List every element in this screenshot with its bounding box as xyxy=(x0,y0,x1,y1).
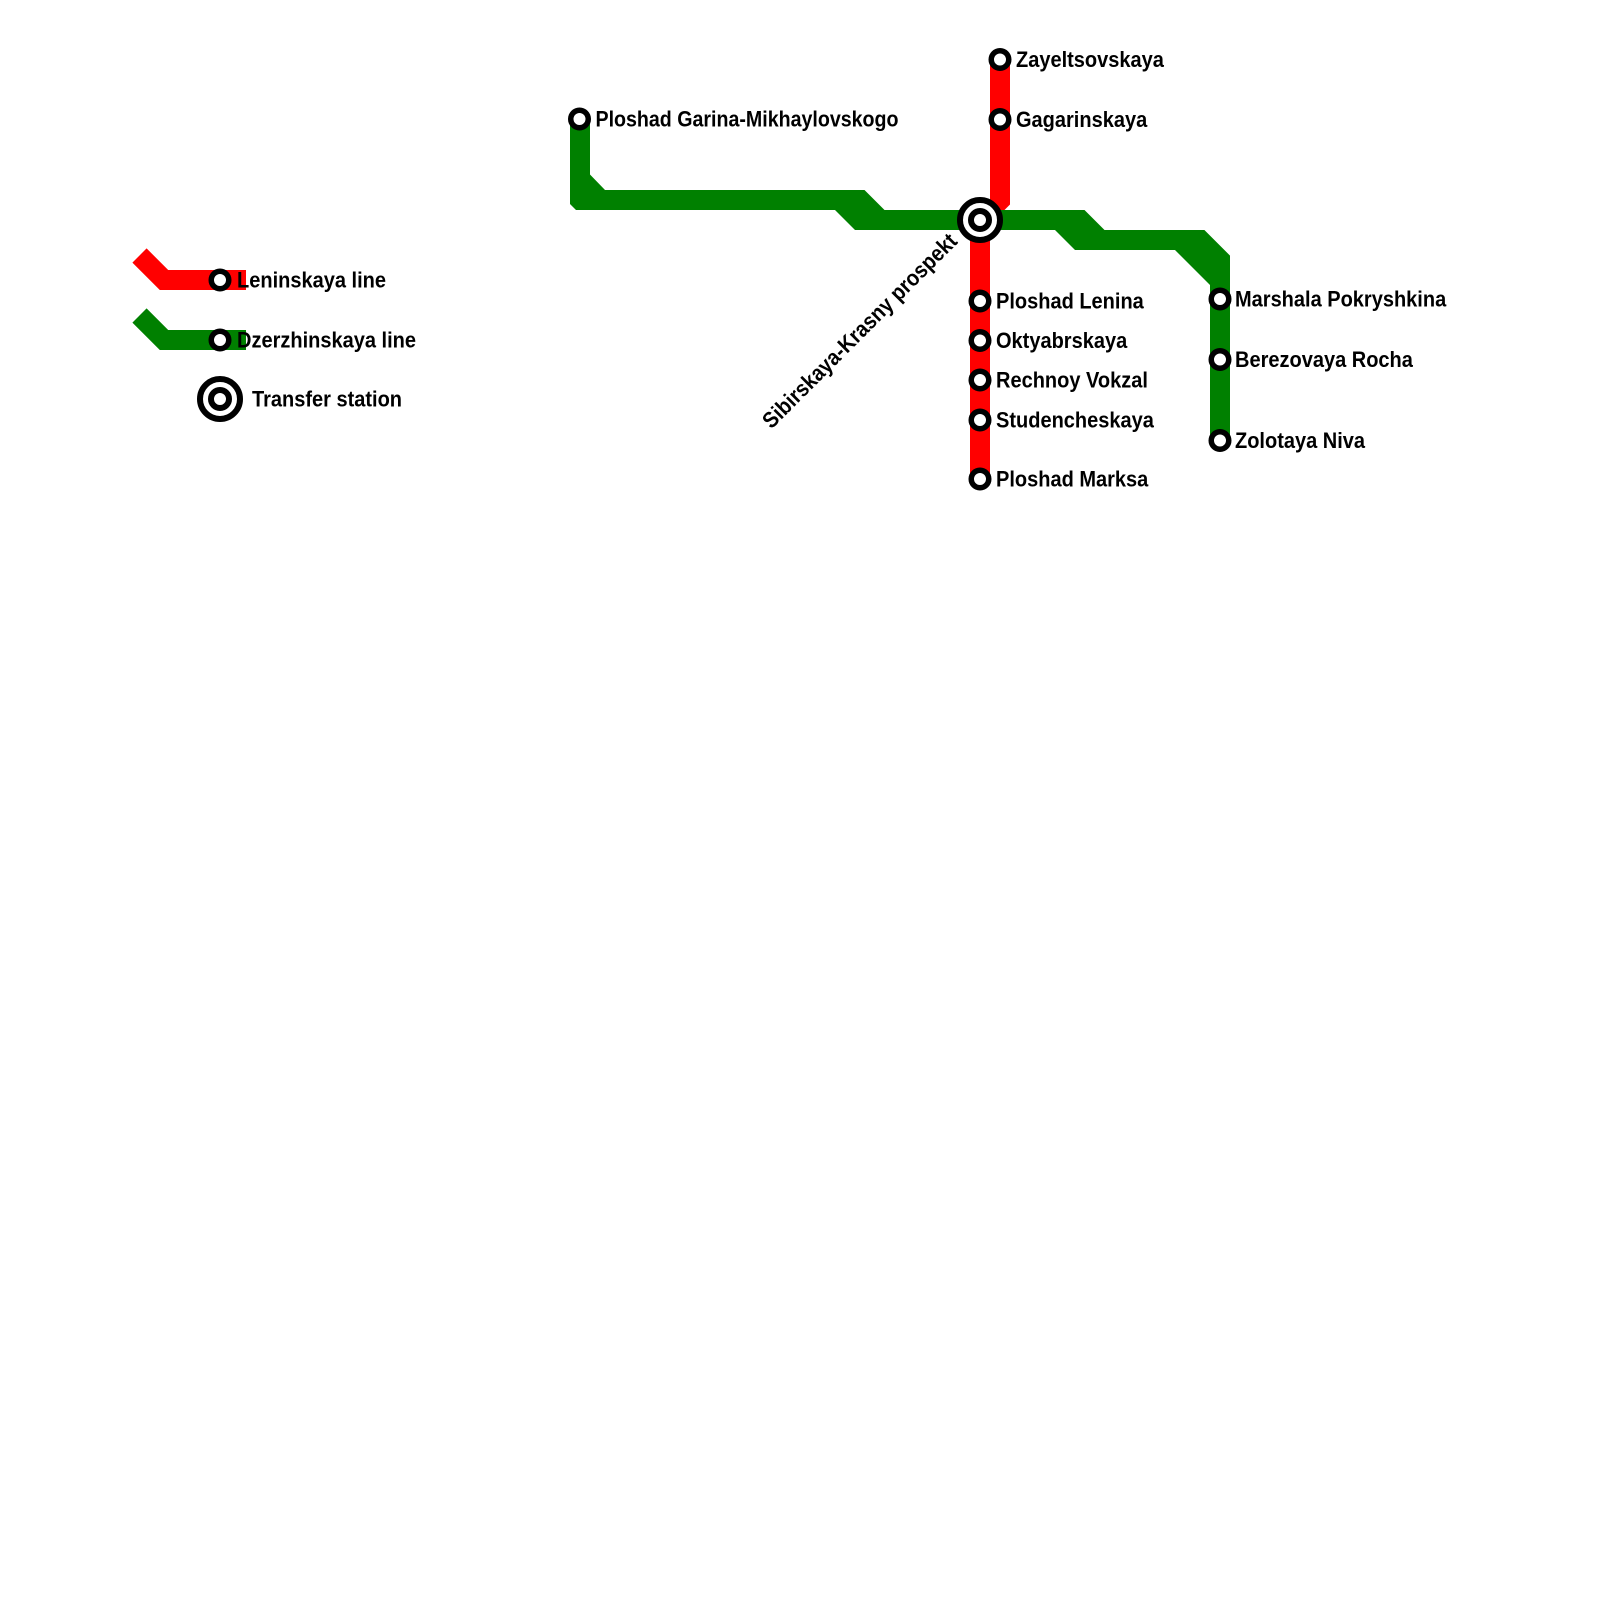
svg-text:Ploshad Garina-Mikhaylovskogo: Ploshad Garina-Mikhaylovskogo xyxy=(596,107,899,132)
svg-text:Oktyabrskaya: Oktyabrskaya xyxy=(996,328,1128,353)
svg-text:Marshala Pokryshkina: Marshala Pokryshkina xyxy=(1235,287,1447,312)
svg-text:Zayeltsovskaya: Zayeltsovskaya xyxy=(1016,47,1164,72)
svg-text:Dzerzhinskaya line: Dzerzhinskaya line xyxy=(237,328,416,353)
svg-text:Studencheskaya: Studencheskaya xyxy=(996,408,1154,433)
svg-text:Leninskaya line: Leninskaya line xyxy=(237,268,386,293)
svg-text:Gagarinskaya: Gagarinskaya xyxy=(1016,107,1148,132)
svg-text:Rechnoy Vokzal: Rechnoy Vokzal xyxy=(996,368,1148,393)
svg-text:Berezovaya Rocha: Berezovaya Rocha xyxy=(1235,347,1413,372)
svg-text:Ploshad Lenina: Ploshad Lenina xyxy=(996,289,1144,314)
svg-text:Transfer station: Transfer station xyxy=(252,387,402,412)
svg-text:Ploshad Marksa: Ploshad Marksa xyxy=(996,467,1149,492)
svg-text:Zolotaya Niva: Zolotaya Niva xyxy=(1235,428,1365,453)
